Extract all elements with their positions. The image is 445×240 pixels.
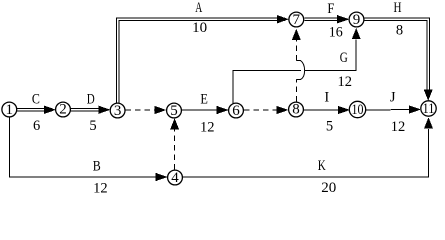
svg-text:5: 5 [170, 103, 178, 119]
svg-text:B: B [93, 159, 101, 175]
svg-text:E: E [200, 92, 208, 108]
svg-text:7: 7 [293, 12, 301, 28]
svg-text:K: K [318, 158, 326, 174]
svg-text:16: 16 [329, 24, 343, 40]
svg-text:3: 3 [114, 103, 122, 119]
svg-text:I: I [324, 89, 329, 105]
svg-text:4: 4 [171, 170, 179, 186]
svg-text:8: 8 [292, 102, 300, 118]
svg-text:12: 12 [93, 181, 108, 197]
svg-text:12: 12 [391, 119, 406, 135]
svg-text:9: 9 [353, 12, 361, 28]
svg-text:2: 2 [59, 102, 67, 118]
svg-text:F: F [327, 1, 334, 17]
svg-text:11: 11 [423, 101, 435, 117]
svg-text:G: G [340, 50, 348, 66]
svg-text:12: 12 [337, 74, 352, 90]
svg-text:6: 6 [232, 103, 240, 119]
svg-text:12: 12 [200, 120, 215, 136]
svg-text:6: 6 [33, 118, 40, 134]
svg-text:C: C [32, 92, 40, 108]
svg-text:10: 10 [192, 20, 207, 36]
svg-text:8: 8 [396, 22, 403, 38]
svg-text:1: 1 [6, 102, 14, 118]
svg-text:10: 10 [352, 102, 364, 118]
svg-text:D: D [87, 92, 95, 108]
svg-text:5: 5 [326, 119, 333, 135]
svg-text:5: 5 [89, 118, 96, 134]
svg-text:A: A [195, 0, 202, 16]
svg-text:H: H [394, 0, 402, 16]
svg-text:20: 20 [321, 180, 336, 196]
svg-text:J: J [390, 89, 396, 105]
